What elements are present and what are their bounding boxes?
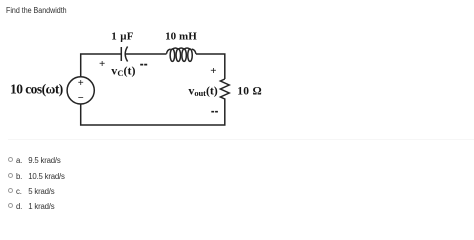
svg-text:+: + <box>99 58 105 70</box>
svg-text:vC(t): vC(t) <box>111 63 135 78</box>
svg-text:+: + <box>210 65 216 77</box>
svg-text:1 μF: 1 μF <box>111 31 133 43</box>
svg-text:−: − <box>78 93 84 104</box>
svg-text:vout(t): vout(t) <box>188 84 217 99</box>
svg-text:10 Ω: 10 Ω <box>237 86 262 98</box>
svg-text:10 mH: 10 mH <box>165 31 197 43</box>
svg-text:10 cos(ωt): 10 cos(ωt) <box>10 82 63 97</box>
svg-text:+: + <box>78 78 84 89</box>
